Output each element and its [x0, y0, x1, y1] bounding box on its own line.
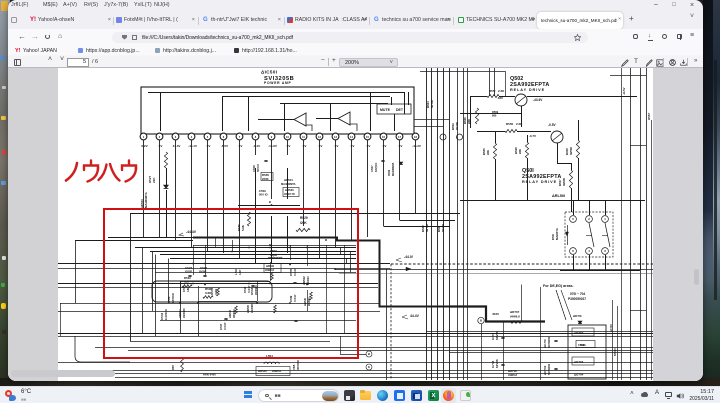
svg-text:0.047: 0.047 — [293, 294, 297, 302]
svg-text:-16.6V: -16.6V — [268, 144, 277, 148]
svg-text:IW I50: IW I50 — [441, 223, 445, 232]
svg-text:R550: R550 — [506, 122, 514, 126]
svg-text:-6.5V: -6.5V — [221, 144, 228, 148]
svg-text:0.33,: 0.33, — [580, 343, 586, 347]
svg-text:E: E — [368, 365, 370, 369]
svg-text:C507: C507 — [370, 165, 374, 172]
svg-text:ΔD703: ΔD703 — [574, 360, 584, 364]
svg-text:I/4WI60: I/4WI60 — [250, 303, 254, 313]
svg-text:-44.1V: -44.1V — [188, 144, 197, 148]
svg-text:3.9K: 3.9K — [214, 288, 218, 295]
svg-text:ΔR520: ΔR520 — [258, 369, 267, 373]
svg-text:I20K: I20K — [300, 221, 307, 225]
svg-text:0.047: 0.047 — [223, 322, 227, 330]
svg-text:-0.5V: -0.5V — [548, 123, 556, 127]
svg-text:50V47: 50V47 — [256, 163, 260, 172]
svg-text:I.8μH: I.8μH — [270, 253, 277, 257]
svg-text:ΔD504: ΔD504 — [284, 178, 293, 182]
svg-text:For DE,EG) areas.: For DE,EG) areas. — [543, 284, 574, 288]
svg-text:-0.4V: -0.4V — [253, 144, 260, 148]
svg-text:63V56: 63V56 — [495, 359, 499, 368]
svg-text:MA4I60MTA: MA4I60MTA — [281, 182, 296, 186]
svg-text:22K: 22K — [152, 177, 156, 183]
svg-text:IOOP: IOOP — [185, 270, 192, 274]
svg-text:44.4V: 44.4V — [173, 144, 181, 148]
svg-text:2.2K: 2.2K — [498, 89, 505, 93]
svg-text:22K: 22K — [486, 150, 490, 155]
svg-text:I/4W6.8: I/4W6.8 — [508, 373, 517, 377]
svg-text:ΔD70I: ΔD70I — [573, 314, 582, 318]
svg-text:50V8200: 50V8200 — [547, 336, 551, 348]
svg-text:IW I80: IW I80 — [430, 99, 434, 108]
svg-text:50V8200: 50V8200 — [547, 363, 551, 375]
svg-text:-0.7V: -0.7V — [529, 134, 536, 138]
svg-text:860: 860 — [492, 114, 497, 118]
svg-text:-44.IV: -44.IV — [404, 255, 414, 259]
svg-text:POWER AMP: POWER AMP — [264, 81, 291, 85]
svg-text:63V|OO: 63V|OO — [374, 163, 378, 172]
svg-text:50V IO: 50V IO — [259, 193, 269, 197]
svg-text:I/2W2.7K: I/2W2.7K — [284, 192, 295, 196]
svg-text:MA4I60MTA: MA4I60MTA — [144, 192, 148, 208]
svg-text:MUTE: MUTE — [380, 108, 391, 112]
svg-text:35VIOO: 35VIOO — [296, 359, 300, 370]
svg-text:48V: 48V — [498, 96, 503, 100]
svg-text:DET: DET — [396, 108, 404, 112]
svg-text:I/4W6.8: I/4W6.8 — [510, 315, 520, 319]
svg-text:IW680: IW680 — [562, 177, 566, 186]
svg-text:IW I80: IW I80 — [455, 121, 459, 130]
svg-text:44.4V: 44.4V — [410, 314, 420, 318]
svg-text:B: B — [269, 200, 271, 204]
svg-text:453V: 453V — [492, 312, 499, 316]
svg-text:ΔR707: ΔR707 — [510, 310, 520, 314]
svg-text:50VI20: 50VI20 — [614, 348, 617, 356]
svg-text:0.047: 0.047 — [293, 268, 297, 276]
svg-text:MAI65TA: MAI65TA — [555, 228, 559, 240]
svg-text:I/2W6.8: I/2W6.8 — [272, 369, 281, 373]
svg-text:R56?: R56? — [647, 112, 651, 120]
svg-text:IW560: IW560 — [569, 146, 573, 155]
svg-text:ΔIC50I: ΔIC50I — [261, 70, 277, 75]
svg-text:IW I50: IW I50 — [425, 223, 429, 232]
svg-text:22K: 22K — [518, 149, 522, 154]
svg-text:-44.2V: -44.2V — [412, 144, 421, 148]
svg-text:I/4WI20: I/4WI20 — [182, 308, 186, 318]
svg-text:ΔR708: ΔR708 — [508, 369, 517, 373]
svg-text:RELAY DRIVE: RELAY DRIVE — [510, 88, 545, 92]
svg-text:2.2K: 2.2K — [516, 122, 523, 126]
svg-text:-44.4V: -44.4V — [186, 230, 197, 234]
svg-text:ΔC703: ΔC703 — [610, 324, 613, 332]
svg-text:I.8P: I.8P — [186, 287, 190, 292]
svg-text:R5I7: R5I7 — [172, 364, 175, 370]
svg-text:ΔR530: ΔR530 — [285, 188, 294, 192]
svg-text:B: B — [480, 319, 482, 323]
svg-text:P300050027: P300050027 — [568, 297, 586, 301]
svg-text:070I ~ 704: 070I ~ 704 — [570, 292, 585, 296]
svg-text:I.8P: I.8P — [238, 270, 242, 275]
svg-text:I/2W6.8: I/2W6.8 — [265, 268, 274, 272]
svg-text:6400 6400: 6400 6400 — [203, 373, 216, 377]
svg-text:ΔRL50I: ΔRL50I — [552, 194, 565, 198]
svg-text:B: B — [368, 352, 370, 356]
svg-text:MA4I60MTA: MA4I60MTA — [392, 162, 395, 176]
svg-text:-4I.5V: -4I.5V — [622, 87, 626, 95]
svg-text:ΔD704: ΔD704 — [574, 373, 584, 377]
svg-text:5.6K: 5.6K — [241, 225, 245, 231]
svg-text:R529: R529 — [300, 216, 308, 220]
svg-text:6.2V: 6.2V — [141, 144, 147, 148]
svg-text:0506: 0506 — [387, 169, 391, 176]
svg-text:-43.9V: -43.9V — [533, 98, 543, 102]
svg-text:6.3VIOO: 6.3VIOO — [164, 308, 168, 320]
svg-text:63VIOO: 63VIOO — [171, 292, 175, 303]
svg-text:63V56: 63V56 — [495, 331, 499, 340]
